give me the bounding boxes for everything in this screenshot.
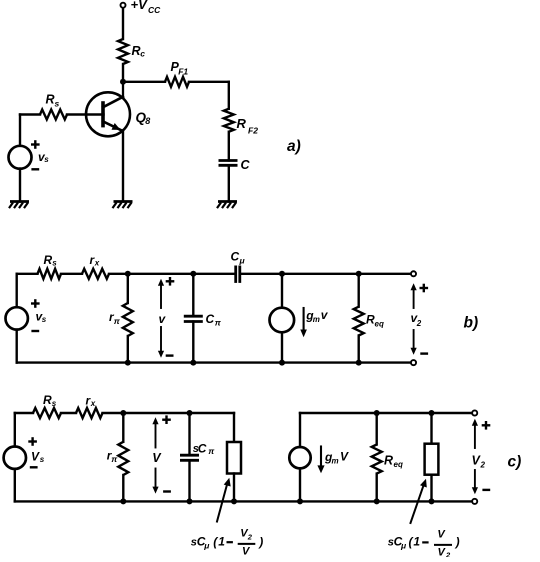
resistor Req (c): [372, 413, 382, 501]
svg-text:c: c: [140, 48, 145, 58]
label sCpi: [193, 441, 216, 456]
svg-text:2: 2: [445, 551, 451, 557]
node sCpi bottom (c): [187, 498, 193, 504]
svg-text:s: s: [52, 259, 57, 268]
label Cmu: [231, 250, 246, 266]
wire rpi node to sCpi node (c): [123, 412, 189, 414]
source vs (a): [9, 146, 32, 169]
svg-text:V: V: [242, 545, 251, 557]
svg-text:R: R: [46, 93, 55, 107]
label Q8: [136, 110, 151, 126]
annotation gm-v arrow: [300, 308, 307, 337]
node box2 top: [429, 410, 435, 416]
svg-text:R: R: [44, 253, 53, 267]
wire sCpi node to box1 corner: [190, 413, 235, 442]
wire vs to ground: [19, 169, 21, 202]
label gm V (c): [324, 450, 349, 466]
node rpi top (b): [125, 271, 131, 277]
element box2 Miller capacitance: [425, 413, 439, 501]
svg-text:x: x: [90, 399, 96, 408]
capacitor Cpi (b): [184, 274, 203, 363]
ground under C: [217, 202, 237, 209]
node rpi top (c): [120, 410, 126, 416]
svg-text:CC: CC: [148, 5, 161, 15]
wire b bottom rail: [17, 361, 411, 363]
wire emitter to ground: [122, 131, 124, 202]
annotation arrow to box2: [411, 479, 427, 523]
svg-text:π: π: [215, 317, 222, 327]
svg-text:2: 2: [480, 461, 486, 470]
svg-text:V: V: [152, 451, 162, 465]
node box1 bottom: [231, 498, 237, 504]
wire c top-left corner: [15, 413, 33, 447]
annotation v arrows: [158, 279, 164, 358]
node Req bottom (c): [374, 498, 380, 504]
svg-text:C: C: [231, 250, 240, 264]
svg-text:1: 1: [413, 535, 420, 549]
label rx: [90, 253, 100, 268]
wire rpi node to Cmu: [128, 273, 236, 275]
node box2 bottom: [429, 498, 435, 504]
svg-text:C: C: [206, 312, 215, 326]
svg-text:R: R: [384, 454, 393, 468]
source Vs (c): [4, 447, 26, 469]
node Cpi bottom (b): [190, 360, 196, 366]
annotation arrow to box1: [217, 478, 231, 522]
label + vs - (a): [31, 140, 49, 169]
ground under emitter: [113, 202, 133, 209]
wire Rs to rx: [61, 273, 82, 275]
source gm-v (b): [270, 274, 295, 363]
svg-text:v: v: [321, 308, 329, 322]
label Rs (b): [44, 253, 58, 268]
wire c bottom rail: [15, 500, 472, 502]
annotation V2 arrows (c): [472, 419, 478, 495]
wire base to Rs: [67, 113, 104, 115]
annotation v2 arrows: [411, 283, 417, 354]
wire Req node to output terminal: [359, 273, 411, 275]
wire Rc to collector node: [122, 64, 124, 82]
svg-text:μ: μ: [203, 540, 210, 550]
label +Vcc: [131, 0, 162, 15]
node sCpi top (c): [187, 410, 193, 416]
node output + terminal (c): [472, 410, 477, 415]
svg-text:m: m: [313, 315, 320, 324]
svg-text:): ): [454, 535, 460, 549]
node rpi bottom (c): [120, 498, 126, 504]
svg-text:x: x: [94, 259, 100, 268]
node output + terminal (b): [411, 271, 416, 276]
svg-text:R: R: [132, 44, 141, 58]
wire gm top to output (c): [300, 412, 472, 414]
source vs (b): [6, 307, 28, 329]
svg-text:c): c): [508, 454, 522, 471]
svg-text:+V: +V: [131, 0, 149, 12]
svg-text:C: C: [241, 158, 251, 172]
wire vs to bottom (b): [16, 330, 18, 363]
annotation gm-V arrow (c): [317, 447, 324, 474]
svg-text:R: R: [43, 393, 52, 407]
label Rs (a): [46, 93, 60, 109]
resistor Rc: [118, 39, 128, 64]
resistor RF2: [224, 109, 234, 132]
svg-text:μ: μ: [239, 256, 246, 266]
label PF1: [171, 60, 189, 77]
svg-text:C: C: [198, 441, 207, 455]
wire box1 to bottom rail: [233, 474, 235, 502]
node Req top (c): [374, 410, 380, 416]
svg-text:b): b): [464, 315, 479, 332]
svg-text:eq: eq: [375, 320, 384, 329]
svg-text:V: V: [340, 450, 349, 464]
label sCmu(1-V/V2): [388, 529, 460, 560]
ground under vs: [9, 202, 29, 209]
label Rc: [132, 44, 146, 58]
svg-text:F1: F1: [178, 66, 188, 76]
svg-text:π: π: [111, 454, 118, 464]
svg-text:s: s: [40, 455, 45, 464]
label + V - annotation (c): [152, 415, 171, 491]
node Req bottom (b): [356, 360, 362, 366]
label Cpi (b): [206, 312, 222, 327]
svg-text:π: π: [114, 316, 121, 326]
label rpi (b): [109, 310, 121, 326]
node rpi bottom (b): [125, 360, 131, 366]
svg-text:F2: F2: [248, 126, 258, 136]
wire Rs to vs corner: [20, 115, 40, 147]
svg-text:π: π: [208, 446, 215, 456]
node output - terminal (c): [472, 499, 477, 504]
source gm-V (c): [289, 413, 310, 501]
svg-text:μ: μ: [400, 540, 407, 550]
svg-text:eq: eq: [394, 460, 403, 469]
label Req (c): [384, 454, 403, 470]
transistor Q8: [86, 82, 130, 137]
wire collector node to PF1: [123, 81, 165, 83]
resistor Rs (a): [40, 110, 67, 120]
wire Vcc to Rc: [122, 8, 124, 39]
wire C to ground: [228, 165, 230, 201]
resistor Req (b): [354, 274, 364, 363]
resistor rx: [82, 269, 109, 279]
wire b top-left corner: [17, 274, 38, 308]
element box1 Miller capacitance: [227, 442, 241, 474]
label sCmu(1-V2/V): [191, 528, 263, 558]
node Cpi top (b): [190, 271, 196, 277]
svg-text:s: s: [42, 315, 47, 324]
node gm top (b): [279, 271, 285, 277]
resistor rpi (b): [123, 274, 133, 363]
svg-text:V: V: [31, 450, 40, 464]
svg-text:V: V: [437, 529, 446, 541]
wire rx to rpi node: [109, 273, 128, 275]
resistor Rs (c): [33, 408, 61, 418]
svg-text:1: 1: [218, 535, 225, 549]
svg-text:s: s: [55, 99, 60, 109]
svg-text:R: R: [237, 116, 247, 131]
node output - terminal (b): [411, 360, 416, 365]
wire Rs to rx (c): [61, 412, 76, 414]
node collector junction: [120, 79, 126, 85]
label rx (c): [86, 394, 96, 409]
capacitor sCpi (c): [180, 413, 199, 501]
svg-text:2: 2: [416, 319, 422, 328]
capacitor C: [219, 161, 238, 166]
svg-text:m: m: [332, 456, 339, 465]
node gm bottom (c): [297, 498, 303, 504]
label Rs (c): [43, 393, 57, 408]
svg-text:v: v: [159, 312, 167, 326]
svg-text:8: 8: [145, 116, 150, 126]
wire Vs to bottom (c): [14, 469, 16, 502]
label + v2 - annotation: [411, 284, 429, 354]
label + Vs - (c): [28, 437, 45, 467]
label RF2: [237, 116, 259, 136]
wire PF1 to RF2 corner: [189, 82, 229, 109]
label gm v (b): [305, 308, 329, 324]
svg-text:): ): [257, 535, 263, 549]
wire rx to rpi node (c): [103, 412, 124, 414]
svg-text:s: s: [44, 155, 49, 164]
annotation V arrows (c): [152, 417, 158, 493]
label + V2 - annotation (c): [472, 421, 491, 490]
svg-text:2: 2: [247, 532, 253, 541]
svg-text:a): a): [287, 138, 301, 155]
resistor rx (c): [76, 408, 103, 418]
node gm bottom (b): [279, 360, 285, 366]
node +Vcc terminal: [121, 3, 126, 8]
wire Cmu to gm node: [240, 273, 282, 275]
label rpi (c): [107, 449, 119, 465]
capacitor Cmu: [236, 266, 240, 283]
svg-text:s: s: [52, 399, 57, 408]
label + vs - (b): [31, 299, 47, 331]
label + v - annotation: [159, 277, 175, 356]
wire RF2 to C: [228, 132, 230, 161]
resistor PF1: [165, 77, 189, 87]
label Req (b): [366, 313, 384, 329]
resistor Rs (b): [38, 269, 62, 279]
resistor rpi (c): [118, 413, 128, 501]
node Req top (b): [356, 271, 362, 277]
wire gm node to Req node: [282, 273, 359, 275]
